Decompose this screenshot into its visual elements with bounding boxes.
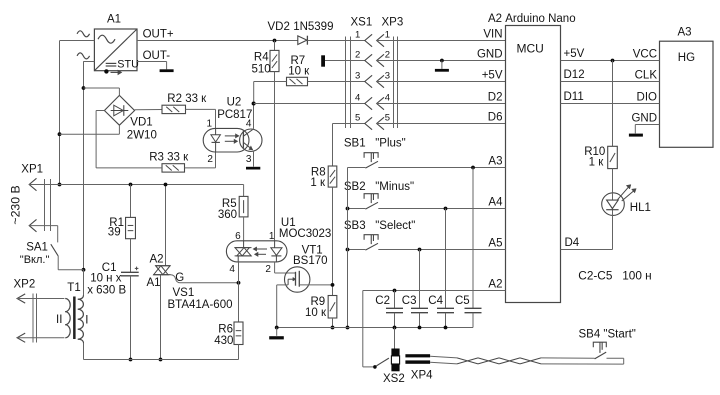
wire SB2 left stub (348, 208, 366, 210)
wire T1 coil bottom to rail (83, 343, 85, 360)
svg-text:510: 510 (252, 64, 271, 76)
junction common / ground rail (346, 326, 350, 330)
pin 4 label U1 (229, 264, 235, 275)
XS1 pin 3 number (355, 71, 360, 82)
svg-text:10 н х: 10 н х (90, 273, 122, 285)
pin label D4 (565, 237, 580, 249)
wire OUT- (137, 61, 167, 63)
label T1 (67, 282, 80, 294)
svg-text:R2 33 к: R2 33 к (167, 93, 207, 105)
svg-text:1: 1 (385, 30, 390, 41)
XP3 pin 2 number (385, 50, 390, 61)
label R10 (584, 146, 605, 158)
wire R1 top lead (130, 185, 132, 218)
junction R1 column / mains wire (129, 183, 133, 187)
wire C2 column to XS2 (394, 328, 396, 349)
mains bottom rail (84, 359, 239, 361)
svg-text:C3: C3 (402, 295, 417, 307)
optocoupler U1 (226, 241, 287, 262)
junction common / SB2 (346, 207, 350, 211)
svg-text:HL1: HL1 (630, 202, 651, 214)
pin label +5V right side (564, 48, 585, 60)
transformer T1 secondary coil I (78, 295, 84, 343)
junction C5 / A3 row (471, 166, 475, 170)
svg-text:10 к: 10 к (305, 307, 327, 319)
label U1 (281, 217, 296, 229)
wire SB2 to A4 (378, 208, 505, 210)
pin 2 label U1 (265, 264, 271, 275)
svg-text:C5: C5 (455, 295, 470, 307)
svg-text:C2: C2 (375, 295, 390, 307)
pin label A5 (488, 238, 502, 250)
wire VS1 gate (171, 275, 239, 283)
connector XP1 strip (45, 179, 51, 231)
wire row5 to XS1 (333, 123, 365, 125)
svg-text:2: 2 (265, 264, 271, 275)
bridge rectifier VD1 (104, 95, 134, 125)
XS1 pin 4 number (355, 93, 360, 104)
pin label DIO A3 (637, 91, 658, 103)
power module A1 box (94, 29, 139, 75)
pin 4 label U2 (246, 118, 252, 129)
svg-text:A1: A1 (107, 14, 121, 26)
wire VS1 A1 down (160, 275, 162, 360)
junction C4 / A4 row (444, 207, 448, 211)
label C2-C5 100n (578, 269, 651, 283)
XS1 pin 4 arrow (365, 97, 372, 109)
capacitor C2 (386, 308, 403, 312)
svg-text:5: 5 (355, 113, 360, 124)
svg-text:BS170: BS170 (293, 255, 328, 267)
label C1 value line2 (87, 285, 126, 297)
connector XS1 strip (346, 37, 351, 129)
wire R3 to U2 pin2 (185, 152, 216, 168)
wire D12 to CLK (561, 81, 660, 83)
plug XP4 (405, 354, 430, 364)
svg-text:STU: STU (117, 59, 139, 71)
wire XP2 top to T1 (17, 298, 64, 300)
wire bridge bottom corner (60, 125, 120, 134)
svg-text:GND: GND (631, 112, 657, 124)
wire A2 row to jack switch (363, 291, 373, 367)
junction cap column x=445.5 / ground rail (444, 326, 448, 330)
svg-text:A3: A3 (488, 156, 502, 168)
svg-text:+5V: +5V (564, 48, 585, 60)
pin label D12 right side (564, 69, 585, 81)
wire capacitor C2 top (394, 291, 396, 309)
jack switch blade (376, 358, 389, 366)
label 1N5399 (293, 21, 333, 33)
svg-text:4: 4 (229, 264, 235, 275)
svg-text:CLK: CLK (635, 69, 658, 81)
svg-text:U1: U1 (281, 217, 296, 229)
resistor R8 (328, 166, 337, 187)
svg-text:D6: D6 (488, 112, 503, 124)
wire R5 top lead (243, 185, 245, 197)
label XS1 (351, 17, 373, 29)
label XP2 (14, 279, 36, 291)
wire VS1 A2 column (165, 185, 167, 266)
diode VD2 (298, 36, 308, 45)
svg-text:1: 1 (207, 118, 213, 129)
svg-text:R4: R4 (254, 52, 269, 64)
label BS170 (293, 255, 328, 267)
label C4 (428, 295, 443, 307)
XS1 pin 2 arrow (365, 54, 372, 66)
svg-text:A1: A1 (147, 277, 161, 289)
wire row4 to XS1 (254, 103, 365, 105)
pin label CLK A3 (635, 69, 658, 81)
svg-text:5: 5 (385, 113, 390, 124)
XP3 pin 5 arrow (377, 117, 384, 129)
label A1 anode (147, 277, 161, 289)
svg-text:х 630 В: х 630 В (87, 285, 126, 297)
svg-text:OUT+: OUT+ (143, 29, 174, 41)
capacitor C3 (411, 308, 428, 312)
wire U1 pin2 to VT1 gate (275, 262, 296, 273)
junction left column / bridge bottom (58, 132, 62, 136)
label winding I (85, 314, 88, 326)
svg-text:39: 39 (108, 226, 121, 238)
svg-text:SA1: SA1 (26, 242, 48, 254)
switch SA1 blade (51, 244, 58, 256)
XP3 pin 2 arrow (377, 54, 384, 66)
junction ground tap row2 (440, 59, 444, 63)
wire junction to T1 coil top (83, 270, 85, 296)
svg-text:4: 4 (246, 118, 252, 129)
label R4 value 510 (252, 64, 271, 76)
wire bridge top corner (84, 88, 120, 95)
pin 1 label U1 (269, 231, 275, 242)
svg-text:VCC: VCC (633, 48, 657, 60)
svg-text:XP3: XP3 (382, 17, 404, 29)
XS1 pin 5 number (355, 113, 360, 124)
svg-text:~230 В: ~230 В (9, 185, 23, 224)
wire capacitor C2 bottom (394, 313, 396, 328)
wire SB1 to A3 (378, 167, 505, 169)
label R5 value (218, 209, 237, 221)
AC tilde marks at A1 inputs (77, 31, 90, 59)
junction C2 / A2 row (393, 289, 397, 293)
wire R2 to U2 pin1 (186, 109, 216, 128)
label A2 Arduino Nano (488, 13, 576, 25)
XP2 pin 2 arrow (17, 333, 25, 342)
junction VS1 A1 / rail (159, 358, 163, 362)
label R2 33k (167, 93, 207, 105)
wire R6 to rail (238, 345, 240, 360)
wire SB3 left stub (348, 249, 366, 251)
junction C3 / A5 row (418, 248, 422, 252)
pin label VIN (483, 29, 502, 41)
svg-text:II: II (56, 314, 62, 326)
svg-text:360: 360 (218, 209, 237, 221)
wire D11 to DIO (561, 103, 660, 105)
wire A1 top input (60, 40, 95, 42)
svg-text:C2-C5 100 н: C2-C5 100 н (578, 269, 651, 283)
label BTA41A-600 (168, 299, 233, 311)
label C3 (402, 295, 417, 307)
junction ground rail left end (275, 326, 279, 330)
capacitor C5 (465, 308, 482, 312)
XS1 pin 2 number (355, 50, 360, 61)
svg-text:1 к: 1 к (310, 177, 326, 189)
svg-text:DIO: DIO (637, 91, 658, 103)
resistor R2 (162, 105, 186, 113)
XP1 pin 1 arrow (29, 178, 36, 190)
label R6 value (214, 335, 233, 347)
svg-text:R6: R6 (218, 323, 233, 335)
XP3 pin 1 arrow (377, 34, 384, 46)
label R8 (311, 166, 326, 178)
terminal bar row2 (321, 55, 325, 66)
connector XP3 strip (394, 37, 398, 129)
wire C1 to rail (130, 276, 132, 360)
label R5 (222, 198, 237, 210)
ground symbol main (269, 328, 284, 340)
label SA1 (26, 242, 48, 254)
svg-text:BTA41A-600: BTA41A-600 (168, 299, 233, 311)
svg-text:1: 1 (269, 231, 275, 242)
wire U2 pin3 down (253, 151, 255, 167)
wire A2 row (363, 290, 506, 292)
svg-text:A2 Arduino Nano: A2 Arduino Nano (488, 13, 576, 25)
svg-text:A5: A5 (488, 238, 502, 250)
pin 3 label U2 (246, 154, 252, 165)
label PC817 (217, 109, 252, 121)
junction cap column x=419.5 / ground rail (418, 326, 422, 330)
wire XP3 pin 2 to A2 (377, 60, 506, 62)
wire R10 to HL1 (612, 169, 614, 193)
label MCU (517, 42, 544, 56)
label R10 value (589, 157, 605, 169)
junction R7 / row4 / U2 pin4 (252, 102, 256, 106)
svg-text:XS2: XS2 (383, 373, 405, 385)
wire U1 pin4 to R6 (238, 262, 240, 322)
XP2 pin 1 arrow (17, 294, 25, 303)
wire capacitor C5 top (472, 168, 474, 309)
ground at U2 pin3 (246, 167, 260, 170)
label OUT- (143, 50, 171, 62)
wire R4 to U1 pin1 (274, 72, 276, 241)
svg-text:D4: D4 (565, 237, 580, 249)
wire left column (59, 41, 61, 185)
wire U2 pin4 up (253, 104, 255, 129)
wire R10 top (612, 61, 614, 147)
label HL1 (630, 202, 651, 214)
wire bridge to R3 (96, 167, 162, 169)
pin label A2 (488, 279, 502, 291)
pin 6 label U1 (235, 231, 241, 242)
wire SA1 top lead (57, 226, 59, 243)
connector XP2 strip (33, 294, 37, 343)
junction ladder / VT1 (331, 283, 335, 287)
wire A1-input column (83, 62, 85, 270)
label R1 (109, 217, 124, 229)
wire bridge left corner down (96, 111, 104, 168)
junction SA1 output (82, 268, 86, 272)
svg-text:2W10: 2W10 (127, 130, 157, 142)
svg-text:XP4: XP4 (411, 369, 433, 381)
XP3 pin 3 arrow (377, 75, 384, 87)
wire VT1 to ground rail (276, 285, 278, 328)
label A1 (107, 14, 121, 26)
svg-text:VD1: VD1 (130, 117, 152, 129)
svg-text:T1: T1 (67, 282, 80, 294)
wire capacitor C4 bottom (445, 313, 447, 328)
junction C1 / rail (129, 358, 133, 362)
svg-text:VD2: VD2 (268, 21, 290, 33)
svg-text:A4: A4 (488, 197, 503, 209)
svg-text:3: 3 (246, 154, 252, 165)
label C1 (102, 262, 117, 274)
wire R9 to ground rail (332, 318, 334, 328)
svg-text:430: 430 (214, 335, 233, 347)
svg-text:+5V: +5V (482, 70, 503, 82)
wire capacitor C3 top (419, 250, 421, 309)
svg-text:A2: A2 (488, 279, 502, 291)
label R1 value (108, 226, 121, 238)
XS1 pin 1 arrow (365, 34, 372, 46)
svg-text:1 к: 1 к (589, 157, 605, 169)
pin label A4 (488, 197, 503, 209)
svg-text:OUT-: OUT- (143, 50, 171, 62)
optocoupler U2 (203, 128, 262, 152)
svg-text:XS1: XS1 (351, 17, 373, 29)
svg-text:I: I (85, 314, 88, 326)
wire VT1 source-drain row (277, 284, 333, 286)
svg-text:HG: HG (678, 52, 695, 64)
wire R1 to C1 (130, 239, 132, 273)
resistor R3 (162, 164, 185, 172)
wire OUT+ row (137, 40, 365, 42)
wire SB3 to A5 (378, 249, 505, 251)
label SB1 Plus (344, 138, 406, 150)
pin label VCC A3 (633, 48, 657, 60)
wire A3 GND (635, 124, 659, 126)
label C5 (455, 295, 470, 307)
svg-text:XP1: XP1 (21, 163, 43, 175)
pin label D6 (488, 112, 503, 124)
wire XP3 pin 3 to A2 (377, 81, 506, 83)
capacitor C1 (121, 272, 139, 276)
display A3 box (660, 41, 714, 147)
svg-text:"Вкл.": "Вкл." (20, 254, 50, 266)
label R9 value (305, 307, 327, 319)
capacitor C4 (437, 308, 454, 312)
wire capacitor C3 bottom (419, 313, 421, 328)
svg-text:XP2: XP2 (14, 279, 36, 291)
label A2 anode (150, 253, 164, 265)
svg-text:2: 2 (355, 50, 360, 61)
label HG (678, 52, 695, 64)
label XP4 (411, 369, 433, 381)
jack switch contact dot (373, 365, 377, 369)
junction gate / R6 column (237, 281, 241, 285)
label winding II (56, 314, 62, 326)
wire SB1 left stub (348, 167, 366, 169)
resistor R7 (287, 77, 308, 85)
ground symbol row2 (435, 61, 449, 72)
svg-text:VIN: VIN (483, 29, 502, 41)
pin label D11 right side (564, 91, 584, 103)
label G gate (175, 272, 184, 284)
wire ladder middle (332, 187, 334, 295)
junction +5V / R10 column (611, 59, 615, 63)
XP3 pin 1 number (385, 30, 390, 41)
label C2 (375, 295, 390, 307)
svg-text:D11: D11 (564, 91, 584, 103)
svg-text:4: 4 (355, 93, 360, 104)
resistor R1 (126, 217, 136, 238)
XP3 pin 4 arrow (377, 97, 384, 109)
svg-text:MCU: MCU (517, 42, 544, 56)
junction VS1 column / mains wire (164, 183, 168, 187)
ground rail wire (277, 327, 473, 329)
svg-text:D12: D12 (564, 69, 585, 81)
XP1 pin 2 arrow (29, 219, 36, 231)
label R6 (218, 323, 233, 335)
label VD1 (130, 117, 152, 129)
label Vkl (20, 254, 50, 266)
XP3 pin 3 number (385, 71, 390, 82)
transformer T1 primary coil II (65, 299, 70, 338)
svg-text:SB1 "Plus": SB1 "Plus" (344, 138, 406, 150)
resistor R4 (270, 50, 279, 71)
junction common / SB3 (346, 248, 350, 252)
junction U2 pin4 / row4 (252, 102, 256, 106)
Arduino A2 box (506, 26, 561, 303)
wire SA1 to junction (58, 256, 83, 270)
svg-text:1: 1 (355, 30, 360, 41)
twisted pair wire to SB4 (430, 356, 624, 364)
label U2 (227, 96, 242, 108)
resistor R9 (328, 296, 337, 319)
label C1 value line1 (90, 273, 122, 285)
wire R5 to U1 pin6 (243, 217, 245, 241)
junction cap column x=394.5 / ground rail (393, 326, 397, 330)
label R8 value (310, 177, 326, 189)
label 230V (9, 185, 23, 224)
svg-text:C4: C4 (428, 295, 443, 307)
label XP3 (382, 17, 404, 29)
wire XP2 bottom to T1 (17, 337, 64, 339)
mains live wire (29, 184, 243, 186)
wire A1 bottom input (83, 61, 94, 63)
pin 2 label U2 (207, 154, 213, 165)
pin label +5V (482, 70, 503, 82)
svg-text:MOC3023: MOC3023 (279, 228, 331, 240)
svg-text:A2: A2 (150, 253, 164, 265)
svg-text:2: 2 (385, 50, 390, 61)
svg-text:4: 4 (385, 93, 390, 104)
junction left column / mains wire (58, 183, 62, 187)
pin label GND A3 (631, 112, 657, 124)
pin 1 label U2 (207, 118, 213, 129)
label VD2 (268, 21, 290, 33)
wire +5V to VCC (561, 60, 660, 62)
svg-text:SB2 "Minus": SB2 "Minus" (344, 181, 414, 193)
svg-text:3: 3 (355, 71, 360, 82)
wire ladder top (332, 124, 334, 167)
svg-text:U2: U2 (227, 96, 242, 108)
svg-text:SB3 "Select": SB3 "Select" (344, 220, 415, 232)
transformer T1 core (73, 297, 76, 340)
wire R4 top lead (274, 41, 276, 51)
svg-text:10 к: 10 к (288, 66, 310, 78)
wire bridge right corner to R2 (135, 109, 162, 111)
svg-text:1N5399: 1N5399 (293, 21, 333, 33)
svg-text:6: 6 (235, 231, 241, 242)
